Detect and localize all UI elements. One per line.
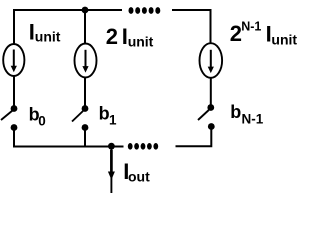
- current source I3 (2^N-1 Iunit): [200, 43, 223, 78]
- svg-text:unit: unit: [271, 32, 297, 48]
- current source I1 (Iunit): [3, 44, 24, 76]
- svg-text:1: 1: [109, 113, 117, 128]
- wire top rail left segment: [14, 10, 122, 44]
- ellipsis top rail: [129, 7, 161, 14]
- svg-text:2: 2: [106, 24, 118, 49]
- svg-text:0: 0: [38, 113, 46, 128]
- svg-text:b: b: [99, 104, 110, 124]
- svg-text:out: out: [128, 168, 150, 184]
- current source I2 (2 Iunit): [75, 44, 97, 78]
- switch S0: [1, 105, 17, 131]
- svg-text:N-1: N-1: [241, 20, 261, 34]
- svg-text:N-1: N-1: [242, 111, 264, 126]
- node junction dot top rail above column 2: [82, 7, 89, 14]
- wire column 3 between source and switch: [210, 78, 212, 105]
- svg-text:unit: unit: [35, 28, 61, 44]
- arrow Iout current direction: [108, 150, 115, 180]
- ellipsis bottom rail: [128, 143, 158, 150]
- switch S2: [198, 104, 215, 130]
- wire top rail right segment: [172, 10, 211, 43]
- wire output down to bottom edge: [110, 146, 112, 193]
- wire column 2 top: [84, 10, 86, 44]
- svg-text:b: b: [230, 102, 241, 122]
- wire column 3 switch to bottom rail: [176, 128, 212, 146]
- wire column 2 switch to bottom rail: [84, 129, 86, 147]
- svg-text:unit: unit: [128, 33, 154, 49]
- wire column 1 switch to bottom rail: [14, 129, 124, 147]
- switch S1: [72, 105, 88, 131]
- node junction dot bottom rail (output node): [108, 143, 115, 150]
- wire column 1 between source and switch: [13, 76, 15, 106]
- wire column 2 between source and switch: [84, 78, 86, 107]
